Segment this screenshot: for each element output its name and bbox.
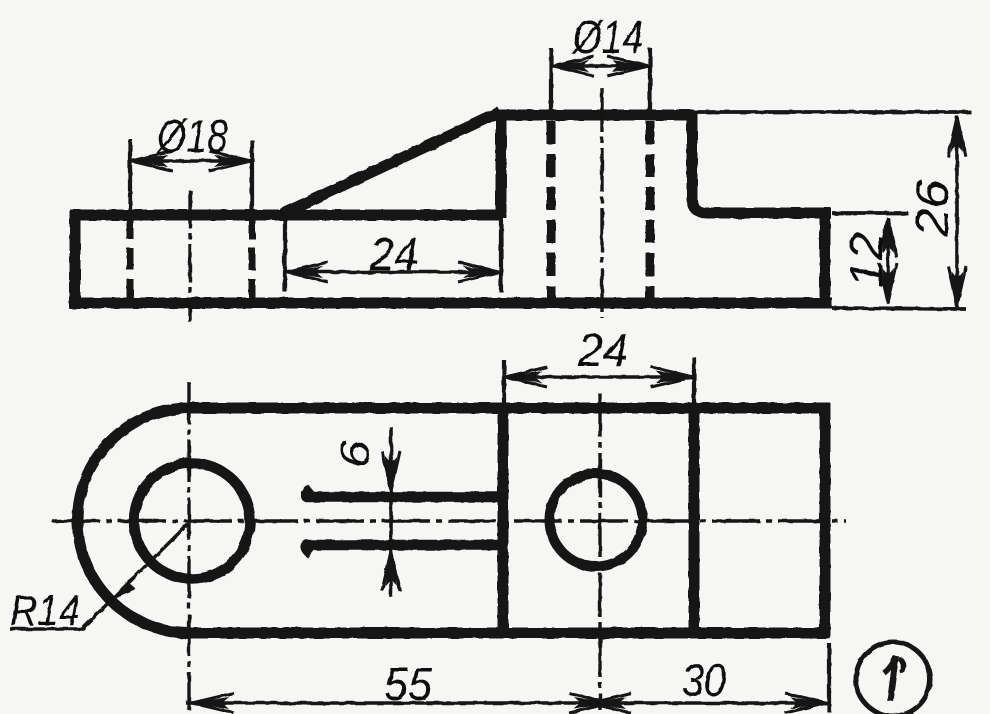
dim 12 dimension line [886,218,890,303]
dim 55 arrowheads [191,697,229,709]
dim 24 (top view) extension lines [283,216,287,292]
boss right edge with rounded step corner [692,111,831,213]
phi18 hole circle [134,463,250,579]
dim phi18 dimension line [131,159,251,163]
dim 24 (plan) extension lines [502,360,506,404]
svg-text:24: 24 [577,324,628,376]
dim 12 arrowheads [882,217,894,253]
dim 24 arrowheads [285,266,323,278]
plan top edge [189,403,830,414]
plan right edge [820,403,831,638]
base plate right edge [820,209,831,308]
svg-text:Ø14: Ø14 [571,11,643,63]
dim 24 dimension line [286,270,500,274]
base plate top edge [70,210,503,221]
vertical centerline through phi18 hole [187,382,190,710]
svg-text:24: 24 [369,228,418,280]
R14 leader line [83,524,188,628]
hidden hole line (phi14 right) [646,121,655,300]
slot lower edge [306,545,500,554]
dim phi14 dimension line [552,64,649,68]
vertical centerline through phi14 hole (plan) [598,393,601,710]
dim 24 (plan) dimension line [505,375,693,379]
dim 24 (plan) arrowheads [504,371,542,383]
dim 26 dimension line [955,116,959,307]
svg-text:R14: R14 [10,587,80,635]
dim 55 dimension line [186,701,610,705]
dim phi14 arrowheads [551,60,589,72]
svg-text:55: 55 [384,658,432,710]
hidden hole line (phi18 left) [127,217,134,300]
centerline of phi14 hole (top view) [600,88,603,318]
view label circle [856,642,930,714]
dim phi18 arrowheads [130,155,168,167]
hidden hole line (phi14 left) [547,121,556,300]
horizontal centerline (plan) [52,519,846,522]
centerline of phi18 hole [188,190,191,322]
plan rounded left end (R14 arc) [78,408,191,633]
dim 26 extension line (top) [694,110,971,114]
dim 30 right extension line [827,643,831,712]
plan step line right [689,408,700,633]
svg-text:12: 12 [840,232,892,288]
svg-text:6: 6 [331,439,378,468]
boss left edge [496,111,507,218]
phi14 hole circle [550,474,643,567]
dim phi18 extension lines [128,139,132,214]
base plate left edge [70,209,81,309]
dim 26 arrowheads [951,116,963,152]
svg-text:26: 26 [906,180,958,239]
dim 30 arrowheads [588,697,626,709]
plan step line left [498,408,509,633]
view label numeral 1 [890,656,896,701]
dim 12 extension lines [832,211,908,215]
slot upper edge [306,488,500,497]
chamfer diagonal edge [282,112,500,214]
boss top edge [495,110,694,121]
R14 text underline [10,627,86,630]
base plate bottom edge [70,298,832,309]
hidden hole line (phi18 right) [249,217,256,300]
dim 6 dimension line with outside arrows [389,427,393,597]
dim 30 dimension line [590,701,828,705]
R14 leader arrowhead [108,570,140,601]
plan bottom edge [189,628,830,639]
svg-text:30: 30 [682,654,726,706]
dim phi14 extension lines [549,48,553,112]
svg-text:Ø18: Ø18 [155,110,228,162]
